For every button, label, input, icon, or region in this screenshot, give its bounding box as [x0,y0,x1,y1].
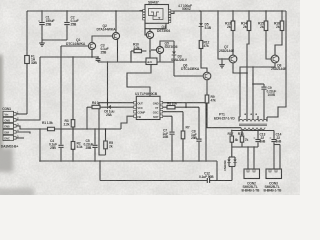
junction Q1 emitter on h-line [91,56,93,58]
junction C2 top [66,10,68,12]
wire Q7 emitter down [233,63,247,73]
junction x253 y67 [252,66,254,68]
resistor R5 [104,129,114,155]
wire Q1 base [61,45,88,47]
diode D4 [104,105,114,117]
wire U1 OSC right to R7 [163,111,183,113]
transistor Q5 [156,41,177,53]
ground below C1 [39,40,45,46]
wire U1 SCP right to C7 [163,115,172,117]
wire Q1 emitter down [91,50,93,57]
junction rail x266 [265,10,267,12]
op-amp controller U1 [134,92,163,120]
transformer PT1 [214,112,267,131]
junction bus x95 [94,128,96,130]
capacitor C1 [38,11,54,40]
capacitor C2 [64,11,78,40]
transistor Q8 [271,55,287,71]
resistor R3 [64,57,75,129]
wire bend x186 [185,103,187,108]
connector CON2 [242,147,261,193]
resistor R15 [258,11,271,59]
wire riser busA to busB [99,161,101,181]
wire U1 GND right y102.5 to x206 [163,102,206,104]
junction busA x183 [182,160,184,162]
capacitor C4 [49,129,64,161]
wire Q4 emitter down to R10 line [149,39,151,51]
junction busA x100 [99,160,101,162]
capacitor C7 [163,116,175,161]
capacitor C8 [191,107,202,161]
resistor R17 [228,131,239,148]
scan smudge left edge [0,55,2,155]
ground bus B with capacitor C12 gap [100,180,207,182]
resistor R13 [225,11,235,55]
wire x107.5 from H62 down to VCC line [107,62,109,105]
regulator module IC4 S4437 [143,1,171,24]
wire top rail left [27,10,150,12]
wire left vertical from top rail to CON1 pin1 [26,11,28,114]
wire primary feed B [252,67,254,117]
junction busA x61 [60,160,62,162]
resistor R16 [274,11,284,55]
junction busA x172 [171,160,173,162]
junction bus x73 [72,128,74,130]
wire IC4 left pin1 from rail [140,10,143,12]
wire riser x40 from pin2 [16,57,40,120]
junction bus x105.5 [105,128,107,130]
resistor R14 [241,11,251,117]
fuse F1 [25,54,38,64]
wire secondary bottom rail [232,146,258,148]
junction rail x200 [199,10,201,12]
zener D3 [171,41,188,76]
resistor R1 [42,121,55,131]
resistor R2 [71,129,82,161]
connector CON1 [1,107,19,149]
resistor R10 [131,43,146,62]
junction x61 on y57 [60,56,62,58]
wire riser busA to busB right x217 [216,161,218,181]
wire C1-C2 bottoms [42,39,67,41]
scan smudge bottom edge [0,188,34,198]
wire x40 bus to ground bus [39,129,41,161]
capacitor C5 [84,129,98,161]
junction Q7 base x222 [221,58,223,60]
wire IC4 loop to Q4 base [145,29,146,35]
wire x206 down to busA [205,103,207,161]
wire Q2 emitter to top rail [115,11,117,32]
wire Q4 collector to IC4 loop [149,29,151,32]
wire Q5 collector up [160,41,174,46]
wire Q5 emitter down [159,54,161,62]
junction busA x206 [205,160,207,162]
junction bus x40 [39,128,41,130]
ground bus A [40,160,217,162]
transistor Q4 [146,25,170,38]
wire CON1 pin5 stub [16,137,24,139]
junction busA x73 [72,160,74,162]
junction x107.5 on H62 [107,61,109,63]
capacitor C3 [96,44,109,63]
resistor R12 [199,41,209,73]
junction x149 y51 [149,50,151,52]
resistor R18 [238,131,249,148]
wire L1 out Z-step to U1 [127,65,151,97]
scan smudge bottom left [0,148,13,172]
junction bus x61 [60,128,62,130]
wire VCC line y107 [87,106,134,108]
wire CON1 pin4 stub [16,132,30,134]
capacitor C9 [253,84,276,117]
junction Q2 top [115,10,117,12]
resistor R6 [163,102,199,109]
wire U1 FB step down to bus [121,116,134,129]
wire Q5 base [151,49,156,51]
wire horizontal y62 [98,61,174,63]
wire x87 riser to bus [86,107,88,129]
wire CON1 pin3 jog to bus [16,126,121,129]
transistor Q1 [66,38,96,49]
node CN-BWR vertical label [223,160,227,171]
wire secondary top rail [232,130,274,132]
junction secondary x248 [247,146,249,148]
wire top rail right [171,10,286,12]
wire Q1 collector up and over to Q2 base [92,36,112,42]
wire x218 from rail down to Q7 base [218,11,222,59]
junction C3 top [97,56,99,58]
junction C1 top [41,10,43,12]
resistor R4 [92,101,100,109]
junction secondary rail x242 [241,130,243,132]
junction busA x40 [39,160,41,162]
resistor R9 [205,80,241,128]
winding polarity dots [244,113,246,115]
wire CON1 pin1 to F1 riser [16,113,27,115]
junction x247 y73 [246,72,248,74]
ground under Q7 base line [219,59,225,68]
wire IC4 right pin2 stub [171,11,174,13]
junction busA x196 [198,160,200,162]
wire Q4 emitter to L1 [149,51,151,58]
transistor Q2 [97,24,120,40]
wire IC4 bottom loop [145,23,166,28]
wire Q6 base [174,75,203,77]
wire Q8 emitter down and left to primary [240,63,275,117]
capacitor C12 [199,171,232,183]
resistor R7 [181,112,190,161]
wire Q2 collector down [117,39,119,62]
transistor Q6 [181,64,211,80]
junction secondary x254 [253,146,255,148]
junction rail x233 [232,10,234,12]
wire Q7 base [218,58,229,60]
capacitor value label 4.7 100uF [178,4,192,11]
diode D12 [227,147,235,167]
wire right edge rail down to transformer right [267,11,286,117]
junction secondary rail x231.8 [231,130,233,132]
wire U1 OUT pin to x99 riser [99,102,134,104]
junction rail x249 [248,10,250,12]
junction rail x218 [217,10,219,12]
inductor L1 [146,58,157,65]
capacitor C13 [254,131,266,148]
wire x99 from U1 OUT pin down [99,103,106,156]
connector CON3 [264,169,283,193]
wire riser x61 Q1 base down to bus [60,46,62,129]
junction rail x282 [281,10,283,12]
diode D13 [229,157,237,181]
junction R3 top on y57 [72,56,74,58]
transistor Q7 [219,45,237,63]
junction busA x95 [94,160,96,162]
junction bus x87 [86,128,88,130]
capacitor C14 [270,131,282,170]
wire horizontal y57 [40,56,98,58]
junction R10 left on H62 [130,61,132,63]
junction C9 tap x253 [252,83,254,85]
zener D5 [199,11,212,41]
